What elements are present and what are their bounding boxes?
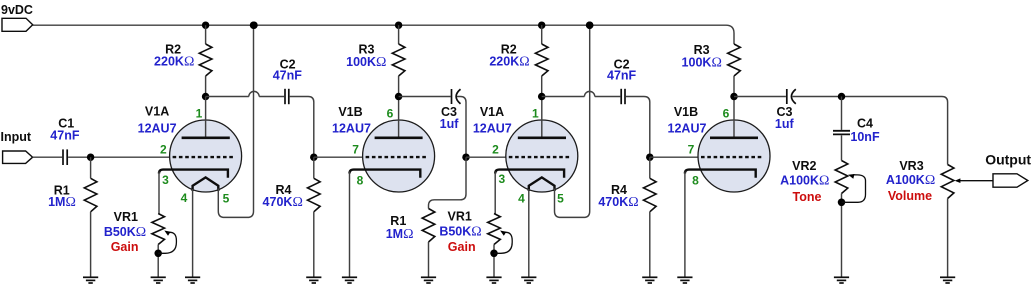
svg-text:12AU7: 12AU7 bbox=[668, 122, 707, 136]
svg-text:8: 8 bbox=[692, 174, 699, 188]
svg-text:1uf: 1uf bbox=[775, 117, 795, 131]
svg-text:2: 2 bbox=[492, 142, 499, 156]
svg-text:V1B: V1B bbox=[338, 105, 362, 119]
svg-text:12AU7: 12AU7 bbox=[138, 122, 177, 136]
svg-text:1uf: 1uf bbox=[440, 117, 460, 131]
svg-text:VR2: VR2 bbox=[792, 159, 816, 173]
svg-text:470KΩ: 470KΩ bbox=[263, 195, 303, 210]
svg-text:100KΩ: 100KΩ bbox=[682, 55, 722, 70]
svg-text:100KΩ: 100KΩ bbox=[346, 55, 386, 70]
svg-text:470KΩ: 470KΩ bbox=[598, 195, 638, 210]
svg-text:V1B: V1B bbox=[674, 105, 698, 119]
svg-text:Gain: Gain bbox=[448, 240, 476, 254]
svg-text:3: 3 bbox=[499, 172, 506, 186]
svg-text:1: 1 bbox=[196, 106, 203, 120]
svg-text:VR3: VR3 bbox=[899, 159, 923, 173]
svg-text:C4: C4 bbox=[857, 116, 873, 130]
svg-text:4: 4 bbox=[518, 191, 525, 205]
svg-text:Input: Input bbox=[1, 130, 32, 144]
svg-text:VR1: VR1 bbox=[448, 209, 472, 223]
svg-text:1MΩ: 1MΩ bbox=[386, 227, 414, 242]
svg-text:7: 7 bbox=[352, 142, 359, 156]
svg-text:7: 7 bbox=[688, 142, 695, 156]
svg-text:220KΩ: 220KΩ bbox=[489, 54, 529, 69]
svg-text:1: 1 bbox=[532, 106, 539, 120]
svg-text:10nF: 10nF bbox=[850, 130, 880, 144]
svg-text:5: 5 bbox=[223, 191, 230, 205]
svg-text:Output: Output bbox=[985, 152, 1031, 168]
svg-text:12AU7: 12AU7 bbox=[473, 122, 512, 136]
svg-text:V1A: V1A bbox=[480, 105, 504, 119]
svg-text:47nF: 47nF bbox=[50, 128, 80, 142]
svg-text:1MΩ: 1MΩ bbox=[48, 195, 76, 210]
svg-text:6: 6 bbox=[387, 106, 394, 120]
svg-text:B50KΩ: B50KΩ bbox=[439, 225, 481, 240]
svg-text:Gain: Gain bbox=[111, 240, 139, 254]
svg-text:Volume: Volume bbox=[888, 189, 932, 203]
svg-text:2: 2 bbox=[160, 142, 167, 156]
svg-text:A100KΩ: A100KΩ bbox=[886, 173, 935, 188]
svg-text:47nF: 47nF bbox=[273, 69, 303, 83]
svg-text:12AU7: 12AU7 bbox=[332, 122, 371, 136]
svg-text:220KΩ: 220KΩ bbox=[154, 54, 194, 69]
svg-text:9vDC: 9vDC bbox=[1, 3, 33, 17]
svg-text:3: 3 bbox=[162, 173, 169, 187]
svg-text:Tone: Tone bbox=[793, 190, 822, 204]
svg-text:V1A: V1A bbox=[145, 104, 169, 118]
svg-text:47nF: 47nF bbox=[607, 69, 637, 83]
svg-text:6: 6 bbox=[723, 106, 730, 120]
svg-text:VR1: VR1 bbox=[114, 210, 138, 224]
svg-text:A100KΩ: A100KΩ bbox=[780, 173, 829, 188]
svg-text:5: 5 bbox=[557, 191, 564, 205]
svg-text:4: 4 bbox=[181, 191, 188, 205]
svg-text:B50KΩ: B50KΩ bbox=[104, 225, 146, 240]
svg-text:8: 8 bbox=[357, 174, 364, 188]
